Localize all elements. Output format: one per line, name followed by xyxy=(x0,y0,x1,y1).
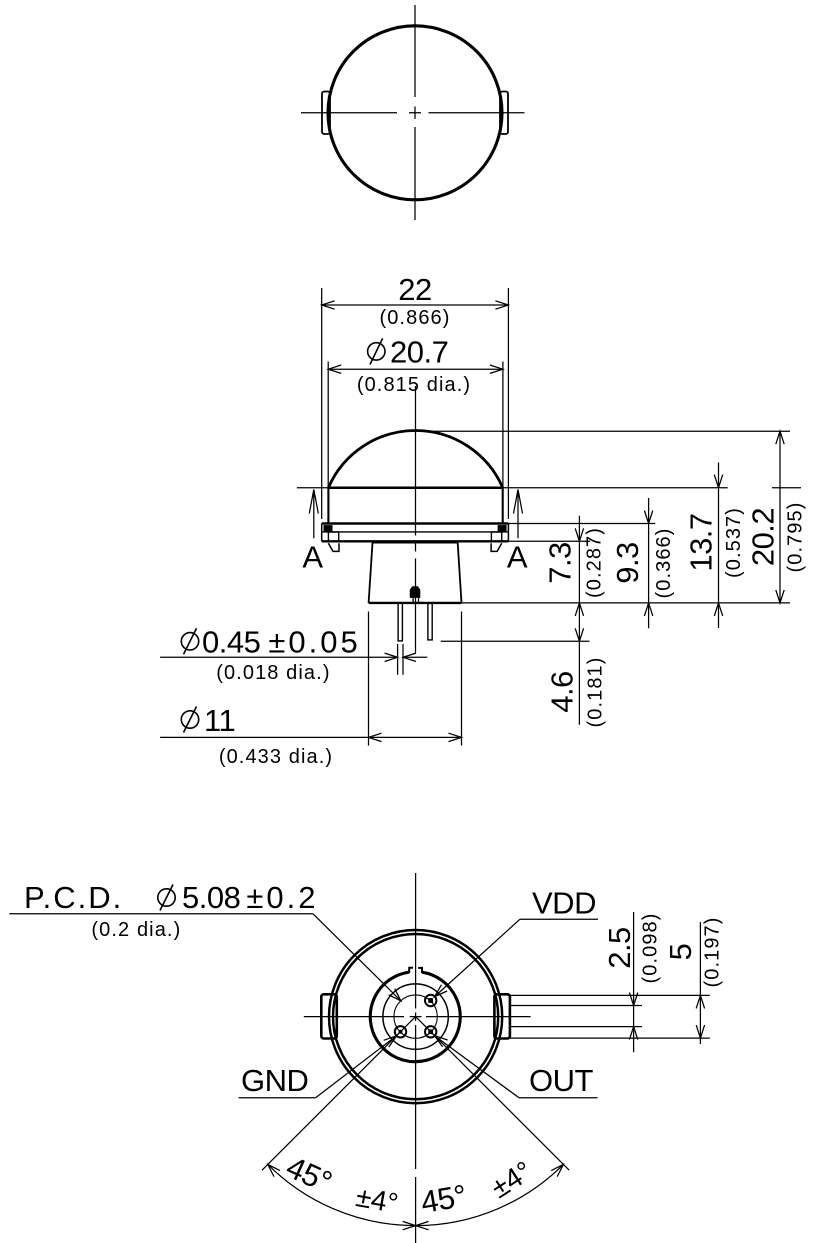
OUT underline xyxy=(519,1097,598,1099)
svg-text:5.08±0.2: 5.08±0.2 xyxy=(182,880,318,915)
svg-text:(0.433 dia.): (0.433 dia.) xyxy=(219,746,333,768)
arc bottom arrows xyxy=(403,1221,429,1229)
svg-text:20.7: 20.7 xyxy=(390,334,448,369)
inner housing circle with top notch xyxy=(370,972,460,1062)
arc right arrow xyxy=(551,1164,563,1176)
dim 20.7 right arrow xyxy=(490,365,503,373)
cylinder left edge xyxy=(327,488,329,524)
svg-text:(0.197): (0.197) xyxy=(702,916,724,987)
svg-text:(0.2 dia.): (0.2 dia.) xyxy=(91,919,181,941)
lower body left side xyxy=(369,543,373,603)
11 extension lines xyxy=(369,612,462,746)
dome base extension left xyxy=(297,487,329,489)
svg-text:GND: GND xyxy=(241,1063,308,1098)
13.7 top arrow xyxy=(714,475,722,488)
GND arrow xyxy=(384,1036,397,1047)
GND leader xyxy=(316,1036,397,1098)
pin row ext line L2 xyxy=(510,1005,642,1007)
flange right edge xyxy=(507,524,509,542)
flange left lock square xyxy=(324,525,333,532)
VDD underline xyxy=(520,918,598,920)
center boss (black) xyxy=(410,586,421,598)
top view right tab xyxy=(500,92,508,135)
svg-text:7.3: 7.3 xyxy=(543,542,578,584)
outer circle xyxy=(329,930,502,1103)
dim 20.7 line xyxy=(328,368,503,370)
top view vertical centerline xyxy=(414,5,416,220)
svg-text:9.3: 9.3 xyxy=(610,542,645,584)
svg-text:(0.098): (0.098) xyxy=(640,912,662,983)
pin row ext line L3 xyxy=(510,1026,642,1028)
OUT pin xyxy=(425,1026,436,1037)
lower body trapezoid top xyxy=(373,542,458,544)
svg-text:A: A xyxy=(507,540,528,575)
dia symbol for 20.7 xyxy=(368,338,385,364)
bottom view vertical centerline xyxy=(415,873,417,1243)
right pin xyxy=(428,603,432,640)
top view body circle xyxy=(328,26,502,200)
svg-text:(0.018 dia.): (0.018 dia.) xyxy=(216,662,330,684)
dim 22 extension lines xyxy=(322,288,509,519)
dim 0.45 leader line xyxy=(160,656,398,658)
svg-text:22: 22 xyxy=(398,272,431,307)
11 left arrow xyxy=(369,733,382,741)
outer inner circle xyxy=(333,934,498,1099)
pin row ext line L4 xyxy=(510,1037,710,1039)
side view vertical centerline xyxy=(415,386,417,653)
svg-text:(0.795): (0.795) xyxy=(785,501,807,572)
notch right stub xyxy=(418,968,422,973)
2.5 bottom arrow xyxy=(629,1027,637,1040)
dim 13.7 vertical line xyxy=(718,463,720,629)
4.6 bottom arrow (points down) xyxy=(575,628,583,641)
flange right lock square xyxy=(498,525,507,532)
svg-text:0.45±0.05: 0.45±0.05 xyxy=(202,625,361,660)
dim 22 right arrow xyxy=(495,301,508,309)
dome base dash far right xyxy=(772,487,801,489)
boss stems xyxy=(413,598,418,603)
P.C.D. circle xyxy=(394,995,437,1038)
dim 22 left arrow xyxy=(322,301,335,309)
0.45 left-pointing arrow xyxy=(403,653,416,661)
left pin xyxy=(398,603,402,641)
flange top extension right xyxy=(508,523,655,525)
svg-text:OUT: OUT xyxy=(529,1063,594,1098)
svg-text:A: A xyxy=(302,540,323,575)
45deg diagonal right xyxy=(416,1017,570,1171)
dia symbol for 0.45 xyxy=(181,628,198,654)
pin row ext line L1 xyxy=(510,994,710,996)
svg-text:11: 11 xyxy=(204,703,235,738)
svg-text:(0.287): (0.287) xyxy=(584,527,606,598)
11 right arrow xyxy=(449,733,462,741)
pin width ticks xyxy=(398,644,403,675)
2.5 top arrow xyxy=(629,993,637,1006)
dim 9.3 vertical line xyxy=(648,498,650,628)
dim 20.7 left arrow xyxy=(328,365,341,373)
top view horizontal centerline xyxy=(301,112,525,114)
dia symbol for 11 xyxy=(181,707,198,733)
section arrow A right xyxy=(514,490,523,539)
dim 20.2 vertical line xyxy=(779,431,781,603)
dome base line xyxy=(328,486,502,489)
flange top line xyxy=(322,522,509,524)
7.3 top arrow (points down at flange bottom) xyxy=(575,528,583,541)
dim 5 vertical line xyxy=(699,922,701,1044)
dome top extension line xyxy=(417,430,790,432)
dim 20.7 extension lines xyxy=(328,362,503,488)
section arrow A left xyxy=(309,490,318,539)
svg-text:20.2: 20.2 xyxy=(746,508,781,566)
flange middle line xyxy=(323,531,508,533)
svg-text:13.7: 13.7 xyxy=(684,513,719,571)
bottom view left tab xyxy=(321,994,337,1038)
5 bottom arrow xyxy=(696,1025,704,1038)
dim 22 line xyxy=(322,304,509,306)
svg-text:(0.815 dia.): (0.815 dia.) xyxy=(357,374,471,396)
flange left edge xyxy=(321,524,323,542)
svg-text:2.5: 2.5 xyxy=(602,927,637,969)
flange bottom line xyxy=(322,540,509,542)
svg-text:4.6: 4.6 xyxy=(544,671,579,713)
dim 2.5 vertical line xyxy=(633,912,635,1052)
OUT leader xyxy=(435,1036,519,1098)
shared arrow up at baseline xyxy=(575,603,583,616)
OUT arrow xyxy=(435,1036,448,1047)
VDD arrow xyxy=(435,985,448,997)
bottom view horizontal centerline xyxy=(304,1016,531,1018)
P.C.D. leader 45deg xyxy=(313,914,401,1001)
5 top arrow xyxy=(696,995,704,1008)
20.2 bottom arrow xyxy=(776,590,784,603)
dim 7.3/4.6 vertical line xyxy=(578,516,580,725)
dome base extension right xyxy=(503,487,728,489)
20.2 top arrow xyxy=(776,431,784,444)
svg-text:VDD: VDD xyxy=(532,886,596,921)
top view left tab xyxy=(322,92,330,135)
P.C.D. underline xyxy=(9,913,313,915)
9.3 top arrow xyxy=(644,511,652,524)
svg-text:(0.366): (0.366) xyxy=(653,527,675,598)
9.3 bottom arrow xyxy=(644,603,652,616)
angle arc xyxy=(268,1164,564,1225)
flange left notch xyxy=(328,532,338,541)
flange bottom extension right xyxy=(508,540,590,542)
arc left arrow xyxy=(268,1164,280,1176)
right hook tab xyxy=(491,543,502,551)
0.45 right segment xyxy=(403,656,427,658)
P.C.D. arrow xyxy=(389,989,401,1001)
GND underline xyxy=(239,1097,316,1099)
svg-text:(0.181): (0.181) xyxy=(584,656,606,727)
svg-text:P.C.D.: P.C.D. xyxy=(24,880,123,915)
VDD pin xyxy=(425,995,436,1006)
svg-text:(0.537): (0.537) xyxy=(723,507,745,578)
left hook tab xyxy=(328,543,339,551)
lower body bottom line xyxy=(369,602,462,604)
13.7 bottom arrow xyxy=(714,603,722,616)
dome lens arc xyxy=(328,431,502,488)
dia symbol for 5.08 xyxy=(158,885,175,911)
pin bottom extension line xyxy=(441,640,590,642)
cylinder right edge xyxy=(502,488,504,524)
45deg diagonal left xyxy=(262,1017,416,1171)
0.45 right-pointing arrow xyxy=(385,653,398,661)
svg-text:(0.866): (0.866) xyxy=(379,307,450,329)
baseline extension right xyxy=(462,602,791,604)
notch left stub xyxy=(409,968,413,973)
flange right notch xyxy=(491,532,501,541)
lower body right side xyxy=(458,543,462,603)
bottom view right tab xyxy=(494,994,510,1038)
GND pin xyxy=(395,1026,406,1037)
svg-text:5: 5 xyxy=(663,944,698,961)
dim 11 leader + dim line xyxy=(160,736,461,738)
inner thin circle xyxy=(383,984,448,1049)
VDD leader xyxy=(435,919,520,996)
